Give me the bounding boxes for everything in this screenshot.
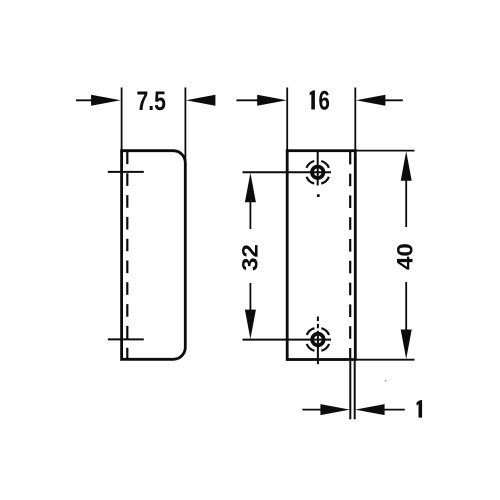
dimension 7.5 right arrow [186, 95, 216, 106]
svg-text:40: 40 [392, 243, 417, 270]
artifact dot [317, 194, 320, 197]
dimension 16 extension line right [354, 88, 356, 151]
svg-text:6: 6 [319, 87, 330, 116]
svg-text:7.5: 7.5 [136, 87, 165, 117]
side view outline [122, 151, 186, 360]
side view top hole centerline tick [108, 171, 144, 173]
dimension 7.5 extension line left [121, 88, 123, 151]
dimension 40 extension line top [355, 150, 414, 152]
dimension 1 extension line left [349, 361, 351, 419]
dimension 40 extension line bottom [355, 359, 414, 361]
dimension 40 line top + arrow [401, 151, 412, 181]
svg-text:32: 32 [237, 244, 262, 271]
dimension 16 right arrow [356, 95, 386, 106]
hole H1 (top) ring [312, 167, 324, 179]
dimension text 16 : custom footless 1 + text 6 [310, 90, 315, 109]
hole H2 thread arcs [321, 328, 329, 335]
dimension 1 extension line right [354, 361, 356, 419]
side view bottom hole centerline tick [108, 338, 144, 340]
hole H2 vertical centerline (dashed above, solid through) [317, 317, 319, 322]
dimension 1 left arrow [302, 409, 322, 411]
hole H1 horizontal centerline [243, 171, 332, 173]
dimension 16 extension line left [286, 88, 288, 151]
dimension 40 line bottom + arrow [405, 282, 407, 330]
faint artifact dot [385, 380, 387, 382]
hole H1 thread arcs [321, 161, 329, 168]
dimension 7.5 extension line right [184, 88, 186, 164]
dimension 32 line top + arrow [245, 173, 256, 203]
dimension 32 line bottom + arrow [249, 283, 251, 310]
front view plate outline [287, 151, 355, 360]
dimension 16 left arrow [236, 99, 258, 101]
side view hidden edge (dashed) [126, 152, 128, 359]
front view hidden edge (dashed) [349, 152, 351, 359]
hole H2 (bottom) ring [312, 334, 324, 346]
hole H2 horizontal centerline [243, 339, 332, 341]
dimension 7.5 left arrow [76, 99, 93, 101]
dimension 1 right arrow [355, 404, 385, 415]
hole H1 vertical centerline [317, 151, 319, 186]
dimension text 1 : custom footless glyph [417, 400, 423, 418]
